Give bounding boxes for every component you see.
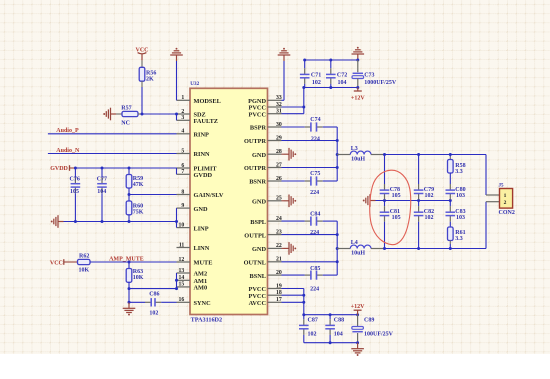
node bottom rail at C87 bbox=[302, 313, 305, 316]
node GND rail at C76 bbox=[74, 220, 77, 223]
wire node to pin2 SDZ bbox=[142, 113, 177, 115]
wire pin21 OUTNL to bar bbox=[282, 261, 338, 263]
svg-text:26: 26 bbox=[276, 176, 282, 182]
svg-text:11: 11 bbox=[179, 242, 185, 248]
resistor R63 bbox=[128, 262, 130, 269]
svg-text:1000UF/25V: 1000UF/25V bbox=[364, 80, 397, 86]
svg-text:28: 28 bbox=[276, 149, 282, 155]
node R56/R57/SDZ junction bbox=[141, 113, 144, 116]
svg-text:29: 29 bbox=[276, 135, 282, 141]
svg-text:LINP: LINP bbox=[194, 225, 209, 232]
capacitor C87 bbox=[303, 315, 305, 320]
U32 right pin stubs 17-33 bbox=[268, 99, 282, 101]
node bottom GND rail at C89 bbox=[356, 341, 359, 344]
node top rail at C73 bbox=[356, 59, 359, 62]
ground at pin22 GND bbox=[282, 247, 284, 249]
ground left of filter mid rail bbox=[370, 200, 376, 202]
svg-text:C72: C72 bbox=[337, 72, 347, 78]
wire GVDD rail bbox=[75, 167, 176, 169]
node PVCC bracket at pin32 bbox=[302, 106, 305, 109]
svg-text:L4: L4 bbox=[351, 240, 358, 246]
svg-text:C74: C74 bbox=[310, 117, 320, 123]
svg-text:105: 105 bbox=[392, 215, 401, 221]
capacitor C80 bbox=[449, 173, 451, 184]
svg-text:30: 30 bbox=[276, 122, 282, 128]
node L3 output / top filter rail bbox=[383, 153, 386, 156]
svg-text:14: 14 bbox=[179, 275, 185, 281]
svg-text:3: 3 bbox=[181, 115, 184, 121]
svg-text:103: 103 bbox=[456, 215, 465, 221]
svg-text:AVCC: AVCC bbox=[249, 300, 267, 307]
wire OUTL output bar bbox=[336, 221, 338, 275]
resistor R57 bbox=[122, 111, 138, 116]
wire decoupling bottom PVCC rail bbox=[304, 87, 358, 89]
svg-text:3.3: 3.3 bbox=[455, 169, 463, 175]
svg-text:1: 1 bbox=[504, 193, 507, 199]
wire top rail to connector pin1 bbox=[485, 155, 487, 196]
capacitor C82 bbox=[418, 201, 420, 207]
svg-text:32: 32 bbox=[276, 102, 282, 108]
svg-text:GVDD: GVDD bbox=[194, 172, 213, 179]
red annotation ellipse around C78/C81 bbox=[370, 170, 411, 244]
svg-text:33: 33 bbox=[276, 95, 282, 101]
resistor R56 bbox=[139, 67, 145, 81]
svg-text:102: 102 bbox=[308, 332, 317, 338]
resistor R61 bbox=[448, 227, 454, 241]
U32 left pin stubs 1-16 bbox=[177, 99, 191, 101]
node top rail at R58 column bbox=[449, 153, 452, 156]
power port +12V top bbox=[357, 88, 359, 92]
svg-text:10uH: 10uH bbox=[351, 251, 365, 257]
node top rail at C71 bbox=[303, 59, 306, 62]
svg-text:10K: 10K bbox=[133, 275, 144, 281]
wire R56 to SDZ node bbox=[141, 81, 143, 87]
wire SDZ to FAULTZ bracket bbox=[176, 114, 178, 120]
svg-text:BSPR: BSPR bbox=[250, 125, 267, 132]
capacitor C88 bbox=[329, 315, 331, 320]
svg-text:C75: C75 bbox=[310, 171, 320, 177]
svg-text:GND: GND bbox=[252, 199, 266, 206]
svg-text:C86: C86 bbox=[149, 292, 159, 298]
inductor L3 10uH bbox=[337, 154, 350, 156]
svg-text:224: 224 bbox=[311, 137, 320, 143]
wire VCC port to R62 bbox=[64, 261, 78, 263]
capacitor C71 bbox=[304, 60, 306, 68]
svg-text:102: 102 bbox=[312, 80, 321, 86]
svg-text:7: 7 bbox=[181, 169, 184, 175]
op-amp U32 TPA3116D2 amplifier IC body bbox=[190, 88, 268, 314]
node SDZ/FAULTZ tie bbox=[175, 113, 178, 116]
node bottom rail at C72 bbox=[329, 86, 332, 89]
ground above PGND bbox=[283, 55, 285, 61]
power port +12V bottom bbox=[357, 310, 359, 315]
capacitor C74 bootstrap bbox=[282, 126, 305, 128]
ground at pin25 GND bbox=[282, 200, 284, 202]
svg-text:10K: 10K bbox=[79, 268, 90, 274]
svg-text:105: 105 bbox=[392, 193, 401, 199]
svg-text:R60: R60 bbox=[133, 203, 143, 209]
wire Audio_N to pin5 RINN bbox=[48, 153, 177, 155]
svg-text:GND: GND bbox=[194, 206, 208, 213]
svg-text:104: 104 bbox=[334, 332, 343, 338]
wire OUTPR output bar bbox=[336, 127, 338, 181]
ground below R63 node bbox=[128, 302, 130, 308]
wire pin23 OUTPL to bar bbox=[282, 234, 338, 236]
node bottom rail at C71/PVCC riser bbox=[302, 86, 305, 89]
capacitor C79 bbox=[418, 155, 420, 185]
svg-text:BSNR: BSNR bbox=[249, 179, 266, 186]
svg-text:100UF/25V: 100UF/25V bbox=[364, 332, 394, 338]
node bar at OUTPR bbox=[336, 139, 339, 142]
wire filter mid GND rail bbox=[376, 200, 451, 202]
wire bar AM2/AM1/AM0 bbox=[176, 273, 178, 289]
svg-text:SYNC: SYNC bbox=[194, 300, 212, 307]
node GND rail at C77 bbox=[101, 220, 104, 223]
node bracket at pin17 bbox=[302, 301, 305, 304]
svg-text:2K: 2K bbox=[146, 77, 154, 83]
capacitor C76 bbox=[74, 168, 76, 178]
svg-text:31: 31 bbox=[276, 109, 282, 115]
svg-text:OUTNL: OUTNL bbox=[244, 260, 266, 267]
node AM1 tie bbox=[175, 279, 178, 282]
wire R63 node down to SYNC node bbox=[128, 289, 130, 303]
resistor R59 bbox=[128, 168, 130, 175]
svg-text:C77: C77 bbox=[97, 177, 107, 183]
node R63 bottom junction bbox=[128, 287, 131, 290]
capacitor C83 bbox=[449, 201, 451, 207]
svg-text:17: 17 bbox=[276, 297, 282, 303]
capacitor C85 bootstrap bbox=[282, 274, 305, 276]
svg-text:C85: C85 bbox=[310, 266, 320, 272]
svg-text:TPA3116D2: TPA3116D2 bbox=[191, 317, 223, 324]
wire top filter rail bbox=[385, 154, 487, 156]
svg-text:19: 19 bbox=[276, 283, 282, 289]
svg-text:C71: C71 bbox=[311, 72, 321, 78]
svg-text:AM0: AM0 bbox=[194, 285, 208, 292]
svg-text:24: 24 bbox=[276, 216, 282, 222]
node AMP_MUTE / R63 junction bbox=[128, 261, 131, 264]
connector J5 pin1 stub bbox=[486, 194, 500, 196]
svg-text:C76: C76 bbox=[70, 177, 80, 183]
capacitor C77 bbox=[101, 168, 103, 178]
node AM0 tie bbox=[175, 287, 178, 290]
svg-text:OUTPR: OUTPR bbox=[244, 138, 266, 145]
ground below C89 bbox=[357, 343, 359, 349]
capacitor C75 bootstrap bbox=[282, 180, 305, 182]
svg-text:R57: R57 bbox=[121, 105, 131, 111]
resistor R60 bbox=[126, 201, 132, 215]
svg-text:R58: R58 bbox=[455, 163, 465, 169]
svg-text:27: 27 bbox=[276, 162, 282, 168]
svg-text:75K: 75K bbox=[133, 209, 144, 215]
wire MODSEL riser bbox=[176, 61, 178, 100]
svg-text:103: 103 bbox=[456, 193, 465, 199]
resistor R62 bbox=[78, 259, 91, 264]
wire pin29 OUTPR to bar bbox=[282, 140, 338, 142]
node top rail at C79 column bbox=[417, 153, 420, 156]
node bottom rail at C89 / +12V bbox=[356, 313, 359, 316]
node bracket at pin18 bbox=[302, 294, 305, 297]
svg-text:LINN: LINN bbox=[194, 245, 210, 252]
node GVDD rail at R59 bbox=[128, 167, 131, 170]
svg-text:C87: C87 bbox=[308, 318, 318, 324]
svg-text:J5: J5 bbox=[499, 184, 505, 189]
svg-text:12: 12 bbox=[179, 257, 185, 263]
node mid rail at C78/C81 bbox=[383, 199, 386, 202]
wire bottom GND rail bbox=[304, 342, 358, 344]
svg-text:PVCC: PVCC bbox=[249, 293, 267, 300]
wire PGND riser bbox=[283, 61, 285, 100]
svg-text:R63: R63 bbox=[133, 269, 143, 275]
svg-text:3.3: 3.3 bbox=[455, 236, 463, 242]
svg-text:GND: GND bbox=[252, 152, 266, 159]
connector J5 pin2 stub bbox=[486, 201, 500, 203]
svg-text:102: 102 bbox=[425, 193, 434, 199]
node bar at pin27 bbox=[336, 166, 339, 169]
svg-text:18: 18 bbox=[276, 290, 282, 296]
wire Audio_P to pin4 RINP bbox=[48, 133, 177, 135]
connector J5 CON2 body bbox=[500, 189, 513, 209]
node bar at OUTNL bbox=[336, 260, 339, 263]
wire analog GND rail bbox=[64, 221, 177, 223]
wire PVCC 32/31 bracket bbox=[282, 106, 304, 108]
node GVDD rail at C77 bbox=[101, 167, 104, 170]
svg-text:+12V: +12V bbox=[351, 95, 365, 101]
svg-text:AMP_MUTE: AMP_MUTE bbox=[109, 256, 144, 262]
wire junction to pin8 GAIN/SLV bbox=[129, 194, 177, 196]
node R59/R60 GAIN junction bbox=[128, 193, 131, 196]
svg-text:21: 21 bbox=[276, 257, 282, 263]
svg-text:RINP: RINP bbox=[194, 132, 210, 139]
node bar at OUTPL bbox=[336, 233, 339, 236]
wire bottom filter rail bbox=[385, 248, 487, 250]
capacitor C78 bbox=[384, 155, 386, 185]
node bottom rail at R61 column bbox=[449, 247, 452, 250]
svg-text:BSPL: BSPL bbox=[250, 219, 266, 226]
svg-text:RINN: RINN bbox=[194, 151, 211, 158]
capacitor C89 electrolytic bbox=[357, 315, 359, 327]
svg-text:5: 5 bbox=[181, 148, 184, 154]
wire ground to R57 bbox=[116, 113, 122, 115]
svg-text:CON2: CON2 bbox=[499, 210, 515, 216]
wire bottom rail to connector pin2 bbox=[485, 202, 487, 249]
svg-text:U32: U32 bbox=[190, 81, 199, 87]
inductor L4 10uH bbox=[337, 248, 350, 250]
capacitor C86 bbox=[129, 301, 145, 303]
node mid rail at C79/C82 bbox=[417, 199, 420, 202]
node GND rail at R60 bbox=[128, 220, 131, 223]
svg-text:MODSEL: MODSEL bbox=[194, 98, 221, 105]
svg-text:GND: GND bbox=[252, 246, 266, 253]
svg-text:C84: C84 bbox=[310, 212, 320, 218]
node SYNC/C86/ground junction bbox=[128, 301, 131, 304]
svg-text:10uH: 10uH bbox=[351, 156, 365, 162]
svg-text:1: 1 bbox=[181, 95, 184, 101]
svg-text:224: 224 bbox=[310, 190, 319, 196]
svg-text:102: 102 bbox=[425, 215, 434, 221]
svg-text:20: 20 bbox=[276, 270, 282, 276]
node mid rail at C80/C83 bbox=[449, 199, 452, 202]
svg-text:9: 9 bbox=[181, 203, 184, 209]
capacitor C81 bbox=[384, 201, 386, 207]
svg-text:15: 15 bbox=[179, 282, 185, 288]
svg-text:8: 8 bbox=[181, 189, 184, 195]
svg-text:C73: C73 bbox=[364, 72, 374, 78]
svg-text:13: 13 bbox=[179, 268, 185, 274]
svg-text:102: 102 bbox=[149, 310, 158, 316]
ground left of R57 bbox=[111, 113, 117, 115]
svg-text:MUTE: MUTE bbox=[194, 260, 213, 267]
node bar at L3 feed bbox=[336, 153, 339, 156]
svg-text:R61: R61 bbox=[455, 230, 465, 236]
svg-text:105: 105 bbox=[70, 189, 79, 195]
wire PVCC/AVCC bracket pins 19-17 bbox=[282, 288, 304, 290]
svg-text:6: 6 bbox=[181, 163, 184, 169]
svg-text:C89: C89 bbox=[364, 318, 374, 324]
svg-text:10: 10 bbox=[179, 222, 185, 228]
svg-text:C88: C88 bbox=[334, 318, 344, 324]
node bottom rail at C73 / +12V bbox=[356, 86, 359, 89]
svg-text:+12V: +12V bbox=[351, 304, 365, 310]
svg-text:OUTPL: OUTPL bbox=[244, 232, 266, 239]
ground above decoupling rail bbox=[357, 54, 359, 60]
svg-text:2: 2 bbox=[504, 200, 507, 206]
svg-text:OUTPR: OUTPR bbox=[244, 165, 266, 172]
wire bar pin9 GND to pin10 LINP bbox=[176, 208, 178, 228]
wire decoupling top GND rail bbox=[305, 59, 358, 61]
svg-text:AM2: AM2 bbox=[194, 271, 208, 278]
wire bottom +12V rail bbox=[304, 314, 358, 316]
svg-text:L3: L3 bbox=[351, 146, 358, 152]
svg-text:PVCC: PVCC bbox=[249, 111, 267, 118]
node L4 output / bottom filter rail bbox=[383, 247, 386, 250]
capacitor C84 bootstrap bbox=[282, 220, 305, 222]
node bar at L4 feed bbox=[336, 247, 339, 250]
svg-text:104: 104 bbox=[338, 80, 347, 86]
svg-text:22: 22 bbox=[276, 243, 282, 249]
svg-text:VCC: VCC bbox=[136, 48, 149, 54]
svg-text:R59: R59 bbox=[133, 176, 143, 182]
wire R57 to node bbox=[138, 113, 142, 115]
node GVDD rail at C76 bbox=[74, 167, 77, 170]
svg-text:VCC: VCC bbox=[50, 260, 63, 266]
wire R62 to pin12 MUTE bbox=[90, 261, 177, 263]
svg-text:224: 224 bbox=[310, 287, 319, 293]
node bottom GND rail at C88 bbox=[329, 341, 332, 344]
svg-text:23: 23 bbox=[276, 229, 282, 235]
node GND rail at pin9/10 bar bbox=[175, 220, 178, 223]
svg-text:GAIN/SLV: GAIN/SLV bbox=[194, 192, 224, 199]
capacitor C72 bbox=[330, 60, 332, 68]
svg-text:16: 16 bbox=[179, 297, 185, 303]
svg-text:47K: 47K bbox=[133, 182, 144, 188]
node bottom rail at C88 bbox=[329, 313, 332, 316]
svg-text:R62: R62 bbox=[79, 254, 89, 260]
resistor R58 bbox=[449, 155, 451, 157]
svg-text:104: 104 bbox=[97, 189, 106, 195]
svg-text:FAULTZ: FAULTZ bbox=[194, 118, 219, 125]
wire PLIMIT/GVDD bracket bbox=[176, 168, 178, 174]
node top rail at C72 bbox=[329, 59, 332, 62]
node bottom rail at C82 column bbox=[417, 247, 420, 250]
wire pin27 to bar bbox=[282, 167, 338, 169]
wire R63 node to AM bar bbox=[129, 288, 177, 290]
svg-text:25: 25 bbox=[276, 196, 282, 202]
svg-text:4: 4 bbox=[181, 129, 184, 135]
svg-text:NC: NC bbox=[121, 121, 130, 127]
ground above MODSEL bbox=[176, 55, 178, 61]
svg-text:2: 2 bbox=[181, 109, 184, 115]
svg-text:BSNL: BSNL bbox=[250, 273, 266, 280]
svg-text:GVDD: GVDD bbox=[50, 166, 68, 172]
ground at pin28 GND bbox=[282, 153, 284, 155]
ground left end of GND rail bbox=[58, 221, 64, 223]
wire VCC to R56 bbox=[141, 60, 143, 67]
capacitor C73 electrolytic bbox=[357, 60, 359, 72]
